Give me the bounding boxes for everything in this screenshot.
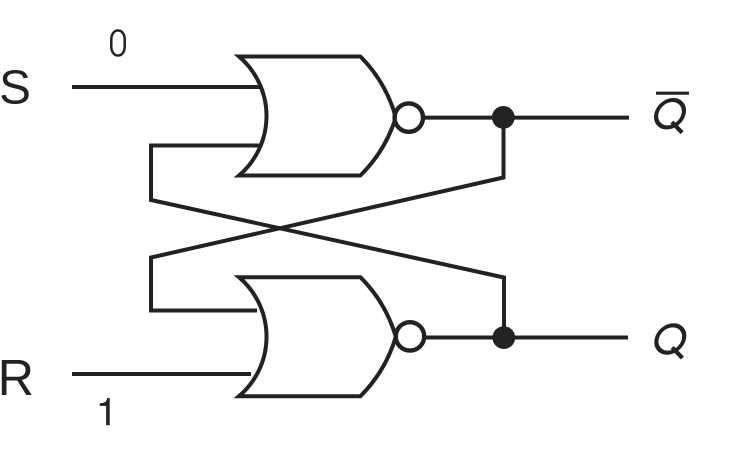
label 0 (S input value)	[111, 31, 124, 56]
label 1 (R input value)	[100, 398, 110, 425]
wire U1 output to Qbar	[425, 116, 629, 120]
wire S input	[72, 85, 260, 89]
wire feedback Qbar to U2 upper input	[151, 118, 504, 311]
label Q	[654, 325, 687, 358]
junction dot node Q	[492, 326, 515, 349]
junction dot node Qbar	[492, 106, 515, 129]
label Qbar	[653, 93, 689, 133]
wire R input	[72, 372, 251, 376]
NOR gate U2 (bottom)	[239, 277, 396, 396]
label S	[1, 70, 28, 104]
label R	[2, 360, 32, 395]
wire feedback Q to U1 lower input	[151, 146, 504, 338]
output bubble U2	[396, 322, 424, 350]
output bubble U1	[395, 103, 423, 131]
NOR gate U1 (top)	[239, 57, 396, 176]
wire U2 output to Q	[426, 336, 628, 340]
